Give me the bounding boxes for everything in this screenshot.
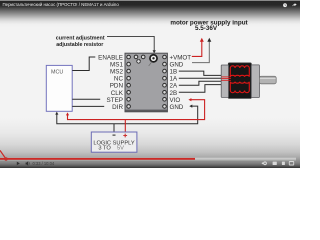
svg-text:PDN: PDN (110, 83, 124, 90)
svg-text:3 TO: 3 TO (98, 146, 111, 152)
svg-text:ENABLE: ENABLE (98, 55, 123, 62)
svg-text:GND: GND (170, 104, 184, 111)
svg-text:MS1: MS1 (110, 62, 123, 69)
svg-text:DIR: DIR (112, 104, 123, 111)
svg-text:MCU: MCU (51, 69, 63, 75)
svg-text:+VMOT: +VMOT (170, 55, 192, 62)
svg-text:current adjustment: current adjustment (56, 35, 105, 41)
svg-text:5.5-36V: 5.5-36V (195, 25, 218, 32)
svg-text:CLK: CLK (111, 90, 124, 97)
svg-text:STEP: STEP (107, 97, 123, 104)
svg-text:0:33 / 10:04: 0:33 / 10:04 (33, 161, 55, 166)
svg-text:1B: 1B (170, 69, 178, 76)
svg-text:VIO: VIO (170, 97, 181, 104)
svg-text:NC: NC (114, 76, 124, 83)
svg-text:Перистальтический насос (ПРОСТ: Перистальтический насос (ПРОСТО! / NEMA1… (3, 2, 120, 7)
svg-text:2B: 2B (170, 90, 178, 97)
svg-text:1A: 1A (170, 76, 178, 83)
svg-text:MS2: MS2 (110, 69, 123, 76)
svg-text:5V: 5V (117, 145, 124, 151)
svg-text:adjustable resistor: adjustable resistor (56, 42, 103, 48)
svg-text:GND: GND (170, 62, 184, 69)
svg-text:2A: 2A (170, 83, 178, 90)
